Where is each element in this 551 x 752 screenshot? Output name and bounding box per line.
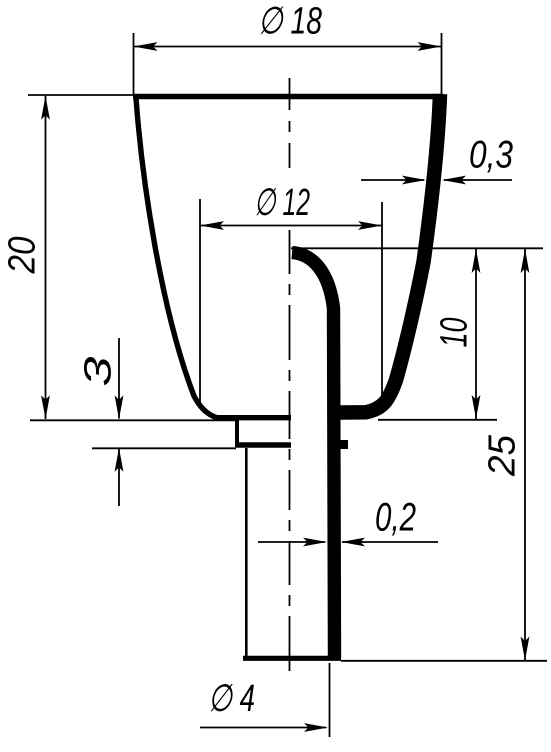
dim 20 line <box>45 96 47 419</box>
svg-text:∅ 12: ∅ 12 <box>254 182 310 224</box>
dim d18 line <box>134 46 442 48</box>
reference line y248 <box>291 247 543 249</box>
svg-text:10: 10 <box>434 318 476 348</box>
dim 0,3 left line <box>361 179 424 181</box>
svg-text:0,2: 0,2 <box>375 496 416 540</box>
svg-text:3: 3 <box>78 357 120 387</box>
cup right wall (section) <box>329 94 440 413</box>
svg-text:∅ 4: ∅ 4 <box>208 678 255 720</box>
dim 20 top reference <box>28 94 133 96</box>
dim d12 line <box>200 225 382 227</box>
dim d4 arrow right <box>304 723 328 732</box>
dim 3 line upper <box>118 338 120 419</box>
dim 25 arrow up <box>521 249 530 273</box>
tube left wall <box>245 448 248 658</box>
dim 0,3 arrow right <box>402 176 426 185</box>
svg-text:20: 20 <box>2 237 44 275</box>
dim 3 arrow up <box>115 448 124 472</box>
centerline upper segment <box>289 78 291 168</box>
reference line y420 <box>30 419 236 421</box>
dim 0,2 arrow right <box>303 538 327 547</box>
dim 25 line <box>524 249 526 660</box>
reference line y661 <box>341 660 547 662</box>
flange right sliver (section) <box>340 440 348 449</box>
inner tube dome and right wall (section) <box>292 253 335 659</box>
dim d4 line <box>200 727 326 729</box>
flange left edge <box>235 419 239 447</box>
tube bottom edge <box>243 656 341 661</box>
reference line y448 <box>92 447 236 449</box>
dim d12 extension right <box>381 202 383 397</box>
dim 20 arrow up <box>41 96 50 120</box>
cup left wall <box>136 98 291 418</box>
centerline lower segment <box>289 230 291 679</box>
svg-text:0,3: 0,3 <box>469 134 513 177</box>
svg-text:25: 25 <box>482 434 524 477</box>
dim d18 arrow left <box>134 42 158 51</box>
dim d18 extension left <box>133 33 135 94</box>
reference line y419 right <box>378 419 497 421</box>
dim 10 arrow up <box>472 249 481 273</box>
dim 3 line lower <box>118 449 120 506</box>
dim 20 arrow down <box>41 395 50 419</box>
dim d12 arrow left <box>200 221 224 230</box>
dim d12 extension left <box>199 199 201 404</box>
svg-text:∅ 18: ∅ 18 <box>258 1 322 43</box>
dim d12 arrow right <box>358 221 382 230</box>
dim 0,2 right line <box>342 541 438 543</box>
dim 0,3 right line <box>444 179 512 181</box>
dim 3 arrow down <box>115 395 124 419</box>
dim 10 line <box>475 249 477 419</box>
cup top edge <box>133 94 443 99</box>
dim d18 extension right <box>441 33 443 94</box>
dim d4 extension line <box>329 663 331 737</box>
flange bottom (left) <box>236 442 292 448</box>
dim d18 arrow right <box>418 42 442 51</box>
dim 0,3 arrow left <box>442 176 466 185</box>
dim 10 arrow down <box>472 395 481 419</box>
dim 25 arrow down <box>521 637 530 661</box>
dim 0,2 arrow left <box>341 538 365 547</box>
dim 0,2 left line <box>258 541 325 543</box>
